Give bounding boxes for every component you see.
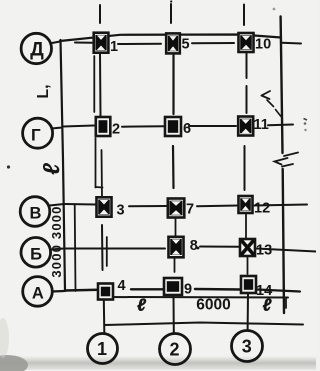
svg-text:10: 10	[255, 37, 271, 53]
left wall line between В and А	[74, 205, 77, 291]
svg-text:3: 3	[117, 203, 125, 219]
column K13	[240, 239, 272, 259]
leader arrow top right	[262, 91, 271, 96]
second bottom border line	[104, 296, 288, 299]
column K14	[241, 276, 272, 299]
column K1	[94, 33, 118, 55]
column K3	[97, 197, 125, 218]
column K8	[169, 237, 200, 257]
dimension line bottom	[105, 323, 304, 326]
scan dot top right	[273, 8, 276, 11]
break symbol on right border	[284, 153, 298, 157]
svg-text:ℓ: ℓ	[263, 296, 272, 315]
column K11	[238, 117, 269, 136]
svg-text:3: 3	[242, 337, 252, 357]
svg-text:1: 1	[110, 39, 118, 55]
svg-text:12: 12	[254, 201, 270, 217]
svg-text:Д: Д	[30, 40, 44, 61]
axis bubble Г	[23, 118, 53, 148]
scan blob bottom-left	[0, 355, 28, 371]
axis bubble 2	[160, 334, 191, 365]
axis Д line (top border)	[60, 35, 281, 42]
scan dot right of Г extension	[304, 122, 307, 125]
svg-text:В: В	[30, 205, 42, 223]
axis Б line	[51, 249, 65, 250]
axis bubble В	[20, 197, 50, 227]
svg-text:6: 6	[183, 121, 191, 137]
axis bubble А	[23, 277, 53, 307]
scan shadow band bottom	[0, 356, 316, 370]
left border / dimension line vertical	[61, 40, 66, 291]
column K2	[96, 117, 120, 138]
axis bubble 1	[88, 334, 118, 364]
column K5	[166, 33, 189, 53]
svg-text:L,: L,	[35, 84, 52, 98]
column K10	[239, 33, 272, 53]
axis bubble Д	[21, 33, 51, 63]
svg-text:4: 4	[118, 278, 126, 294]
svg-text:2: 2	[112, 122, 120, 138]
svg-text:1: 1	[97, 339, 107, 359]
column K6	[165, 117, 191, 137]
svg-text:5: 5	[182, 37, 190, 53]
svg-text:13: 13	[256, 243, 272, 259]
column K9	[164, 278, 192, 298]
axis Г line	[52, 128, 63, 129]
grid line axis 2 vertical	[170, 4, 172, 23]
svg-text:7: 7	[186, 202, 194, 218]
svg-text:9: 9	[184, 282, 192, 298]
svg-text:6000: 6000	[196, 297, 230, 314]
column K4	[98, 278, 126, 300]
grid line axis 1 vertical	[99, 5, 101, 23]
svg-text:Б: Б	[30, 245, 42, 263]
grid line axis 3 vertical	[243, 5, 245, 26]
svg-text:11: 11	[254, 117, 269, 133]
svg-text:2: 2	[169, 340, 179, 360]
svg-text:А: А	[32, 284, 44, 302]
columns	[94, 33, 272, 300]
axis А line (bottom border)	[52, 290, 64, 293]
svg-text:Г: Г	[31, 126, 41, 145]
column K7	[168, 199, 194, 218]
svg-text:8: 8	[190, 238, 198, 254]
right border vertical (broken at break symbol)	[281, 17, 283, 154]
axis bubble Б	[21, 238, 51, 268]
svg-text:ℓ: ℓ	[38, 163, 64, 175]
scan dash right of border	[304, 119, 308, 121]
column K12	[239, 196, 271, 217]
svg-text:ℓ: ℓ	[137, 296, 146, 315]
dimension tick right	[285, 299, 287, 308]
scan dot left edge	[7, 165, 10, 168]
axis bubble 3	[232, 331, 263, 362]
svg-text:3000 3000: 3000 3000	[49, 205, 64, 277]
axis В line	[50, 204, 65, 206]
